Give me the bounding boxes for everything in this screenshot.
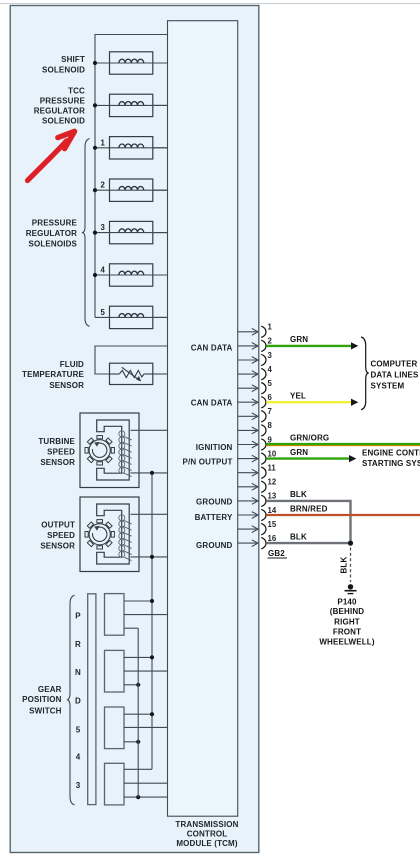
wire switch box 4 B to TCM (124, 782, 168, 784)
svg-text:REGULATOR: REGULATOR (26, 229, 77, 238)
junction dot switch box 3 C (136, 740, 140, 744)
junction dot solenoid row 1 (93, 61, 97, 65)
pin 7 connector hook (261, 411, 266, 422)
svg-text:4: 4 (268, 365, 273, 374)
pin 9 connector hook (261, 439, 266, 450)
wire BLK pin 13 (266, 501, 350, 543)
wire switch box 4 C (124, 796, 168, 798)
svg-text:GRN: GRN (290, 448, 308, 457)
pin 11 arrow (238, 469, 258, 476)
wire switch box 1 A (124, 600, 152, 602)
svg-text:REGULATOR: REGULATOR (34, 107, 85, 116)
wire GRN pin 10 (266, 455, 356, 462)
wire: solenoid common feed to TCM (95, 35, 168, 318)
svg-text:R: R (75, 640, 81, 649)
TCM outer enclosure box (10, 6, 259, 853)
svg-text:D: D (75, 696, 81, 705)
wire GRN pin 2 (266, 342, 358, 349)
svg-text:10: 10 (268, 449, 277, 458)
TCC pressure regulator solenoid (95, 94, 168, 116)
wire switch box 2 A (124, 656, 152, 658)
svg-text:FLUID: FLUID (60, 360, 84, 369)
wire switch box 3 A (124, 713, 152, 715)
wire switch box 4 A (124, 768, 152, 770)
gear switch contact box 3 (105, 707, 125, 749)
shift solenoid (95, 52, 168, 74)
svg-text:SENSOR: SENSOR (40, 541, 75, 550)
wire switch C chain bus (137, 628, 139, 797)
pin 10 connector hook (261, 453, 266, 464)
svg-text:SPEED: SPEED (47, 448, 75, 457)
svg-text:P140: P140 (337, 598, 357, 607)
svg-text:P/N OUTPUT: P/N OUTPUT (183, 458, 233, 467)
svg-text:COMPUTER: COMPUTER (371, 360, 418, 369)
svg-text:5: 5 (268, 379, 273, 388)
junction dot solenoid row 5 (93, 231, 97, 235)
pressure regulator solenoid 4 (95, 264, 168, 286)
svg-text:BLK: BLK (340, 557, 349, 574)
svg-text:7: 7 (268, 407, 272, 416)
svg-text:SPEED: SPEED (47, 531, 75, 540)
pin 1 connector hook (261, 326, 266, 337)
annotation red arrow (28, 141, 67, 181)
wire YEL pin 6 (266, 399, 358, 406)
svg-text:RIGHT: RIGHT (334, 617, 360, 626)
svg-text:3: 3 (268, 351, 273, 360)
svg-text:CAN DATA: CAN DATA (191, 399, 233, 408)
svg-text:4: 4 (76, 753, 81, 762)
wire output speed sensor low (131, 556, 168, 558)
svg-text:11: 11 (268, 464, 277, 473)
svg-text:TEMPERATURE: TEMPERATURE (22, 370, 84, 379)
svg-text:SENSOR: SENSOR (49, 381, 84, 390)
junction dot solenoid row 4 (93, 188, 97, 192)
svg-text:BLK: BLK (290, 533, 307, 542)
svg-text:ENGINE CONTROLS -: ENGINE CONTROLS - (362, 448, 420, 457)
ground G401 symbol (345, 584, 357, 594)
fluid temperature sensor (95, 346, 168, 385)
junction dot output low (150, 555, 154, 559)
svg-text:5: 5 (101, 308, 106, 317)
pin 11 connector hook (261, 467, 266, 478)
svg-text:GROUND: GROUND (196, 497, 233, 506)
pin 13 connector hook (261, 495, 266, 506)
wire sensor/switch common bus (151, 473, 153, 769)
wire output speed sensor high (131, 513, 168, 515)
pin 3 connector hook (261, 354, 266, 365)
junction dot switch box 4 C (136, 795, 140, 799)
pin 7 arrow (238, 413, 258, 420)
svg-text:CONTROL: CONTROL (187, 830, 228, 839)
brace pressure regulator solenoids (82, 139, 90, 327)
svg-text:GB2: GB2 (268, 549, 285, 558)
svg-text:DATA LINES: DATA LINES (371, 371, 420, 380)
svg-text:GRN: GRN (290, 335, 308, 344)
svg-text:(BEHIND: (BEHIND (330, 607, 364, 616)
svg-text:2: 2 (101, 181, 106, 190)
wire switch box 1 C (124, 627, 138, 629)
pin 8 arrow (238, 427, 258, 434)
pin 9 arrow (238, 441, 258, 448)
brace computer data lines (361, 337, 369, 410)
svg-text:OUTPUT: OUTPUT (41, 520, 75, 529)
wire BLK pin 16 (266, 542, 350, 544)
turbine speed sensor (80, 413, 139, 488)
junction dot solenoid row 2 (93, 103, 97, 107)
pin 5 connector hook (261, 383, 266, 394)
junction dot switch box 2 C (136, 683, 140, 687)
wire switch box 2 B to TCM (124, 670, 168, 672)
svg-text:FRONT: FRONT (333, 628, 361, 637)
svg-text:YEL: YEL (290, 391, 306, 400)
wire BLK dashed to ground (350, 548, 352, 583)
svg-text:12: 12 (268, 478, 277, 487)
wire switch box 1 B to TCM (124, 614, 168, 616)
wire GRN/ORG pin 9 (266, 444, 420, 446)
svg-text:SHIFT: SHIFT (61, 55, 85, 64)
junction dot solenoid row 6 (93, 273, 97, 277)
svg-text:4: 4 (101, 266, 106, 275)
pressure regulator solenoid 2 (95, 179, 168, 201)
page top rule (0, 3, 420, 5)
svg-text:3: 3 (76, 781, 81, 790)
pin 6 arrow (238, 399, 258, 406)
pin 14 connector hook (261, 509, 266, 520)
svg-text:TURBINE: TURBINE (38, 437, 75, 446)
pin 16 arrow (238, 540, 258, 547)
svg-text:P: P (75, 612, 81, 621)
gear position switch slider bar (88, 594, 96, 805)
junction dot switch box 1 A (150, 599, 154, 603)
svg-text:8: 8 (268, 421, 273, 430)
svg-text:GRN/ORG: GRN/ORG (290, 434, 329, 443)
pin 15 connector hook (261, 523, 266, 534)
pin 2 connector hook (261, 340, 266, 351)
wire turbine speed sensor high (131, 429, 168, 431)
pin 12 connector hook (261, 481, 266, 492)
wire switch box 3 B to TCM (124, 726, 168, 728)
gear switch contact box 1 (105, 594, 125, 636)
pin 14 arrow (238, 512, 258, 519)
pin 6 connector hook (261, 397, 266, 408)
pin 15 arrow (238, 526, 258, 533)
svg-text:POSITION: POSITION (22, 695, 61, 704)
pin 1 arrow (238, 328, 258, 335)
gear switch contact box 4 (105, 763, 125, 805)
svg-text:BRN/RED: BRN/RED (290, 504, 328, 513)
pin 5 arrow (238, 385, 258, 392)
output speed sensor (80, 497, 139, 572)
svg-text:6: 6 (268, 393, 273, 402)
junction dot switch box 2 A (150, 655, 154, 659)
svg-text:BLK: BLK (290, 490, 307, 499)
svg-text:16: 16 (268, 534, 277, 543)
wire switch box 2 C (124, 684, 138, 686)
svg-text:14: 14 (268, 506, 277, 515)
pressure regulator solenoid 1 (95, 137, 168, 159)
svg-text:1: 1 (268, 323, 273, 332)
gear switch contact box 2 (105, 650, 125, 692)
pin 3 arrow (238, 357, 258, 364)
svg-text:15: 15 (268, 520, 277, 529)
svg-text:SOLENOIDS: SOLENOIDS (29, 240, 78, 249)
svg-text:13: 13 (268, 492, 277, 501)
pressure regulator solenoid 3 (95, 221, 168, 243)
svg-text:GEAR: GEAR (38, 685, 62, 694)
svg-text:BATTERY: BATTERY (195, 513, 233, 522)
pin 2 arrow (238, 343, 258, 350)
svg-text:1: 1 (101, 138, 106, 147)
svg-text:SOLENOID: SOLENOID (42, 65, 85, 74)
svg-text:IGNITION: IGNITION (196, 443, 233, 452)
TCM inner module box (168, 21, 238, 817)
svg-text:MODULE (TCM): MODULE (TCM) (176, 839, 238, 848)
svg-text:3: 3 (101, 223, 106, 232)
svg-text:SOLENOID: SOLENOID (42, 117, 85, 126)
junction dot switch box 3 A (150, 712, 154, 716)
svg-text:STARTING SYSTEM: STARTING SYSTEM (362, 459, 420, 468)
svg-text:SENSOR: SENSOR (40, 458, 75, 467)
pin 13 arrow (238, 498, 258, 505)
svg-text:PRESSURE: PRESSURE (40, 97, 86, 106)
junction dot splice S-point (348, 541, 353, 546)
svg-text:SWITCH: SWITCH (29, 706, 62, 715)
svg-text:TRANSMISSION: TRANSMISSION (175, 820, 238, 829)
svg-text:GROUND: GROUND (196, 541, 233, 550)
wire switch box 3 C (124, 741, 138, 743)
svg-text:WHEELWELL): WHEELWELL) (319, 638, 374, 647)
svg-text:5: 5 (76, 726, 81, 735)
svg-text:TCC: TCC (68, 87, 85, 96)
wire turbine speed sensor low (131, 472, 168, 474)
pin 4 arrow (238, 371, 258, 378)
wire BRN/RED pin 14 (266, 514, 420, 516)
pin 16 connector hook (261, 537, 266, 549)
pin 10 arrow (238, 455, 258, 462)
svg-text:2: 2 (268, 337, 273, 346)
junction dot turbine low (150, 471, 154, 475)
brace gear position switch (67, 595, 75, 805)
svg-text:N: N (75, 668, 81, 677)
pressure regulator solenoid 5 (95, 306, 168, 328)
pin 8 connector hook (261, 425, 266, 436)
svg-text:CAN DATA: CAN DATA (191, 343, 233, 352)
svg-text:SYSTEM: SYSTEM (371, 382, 405, 391)
junction dot solenoid row 3 (93, 146, 97, 150)
pin 4 connector hook (261, 368, 266, 379)
pin 12 arrow (238, 483, 258, 490)
svg-text:PRESSURE: PRESSURE (32, 218, 78, 227)
